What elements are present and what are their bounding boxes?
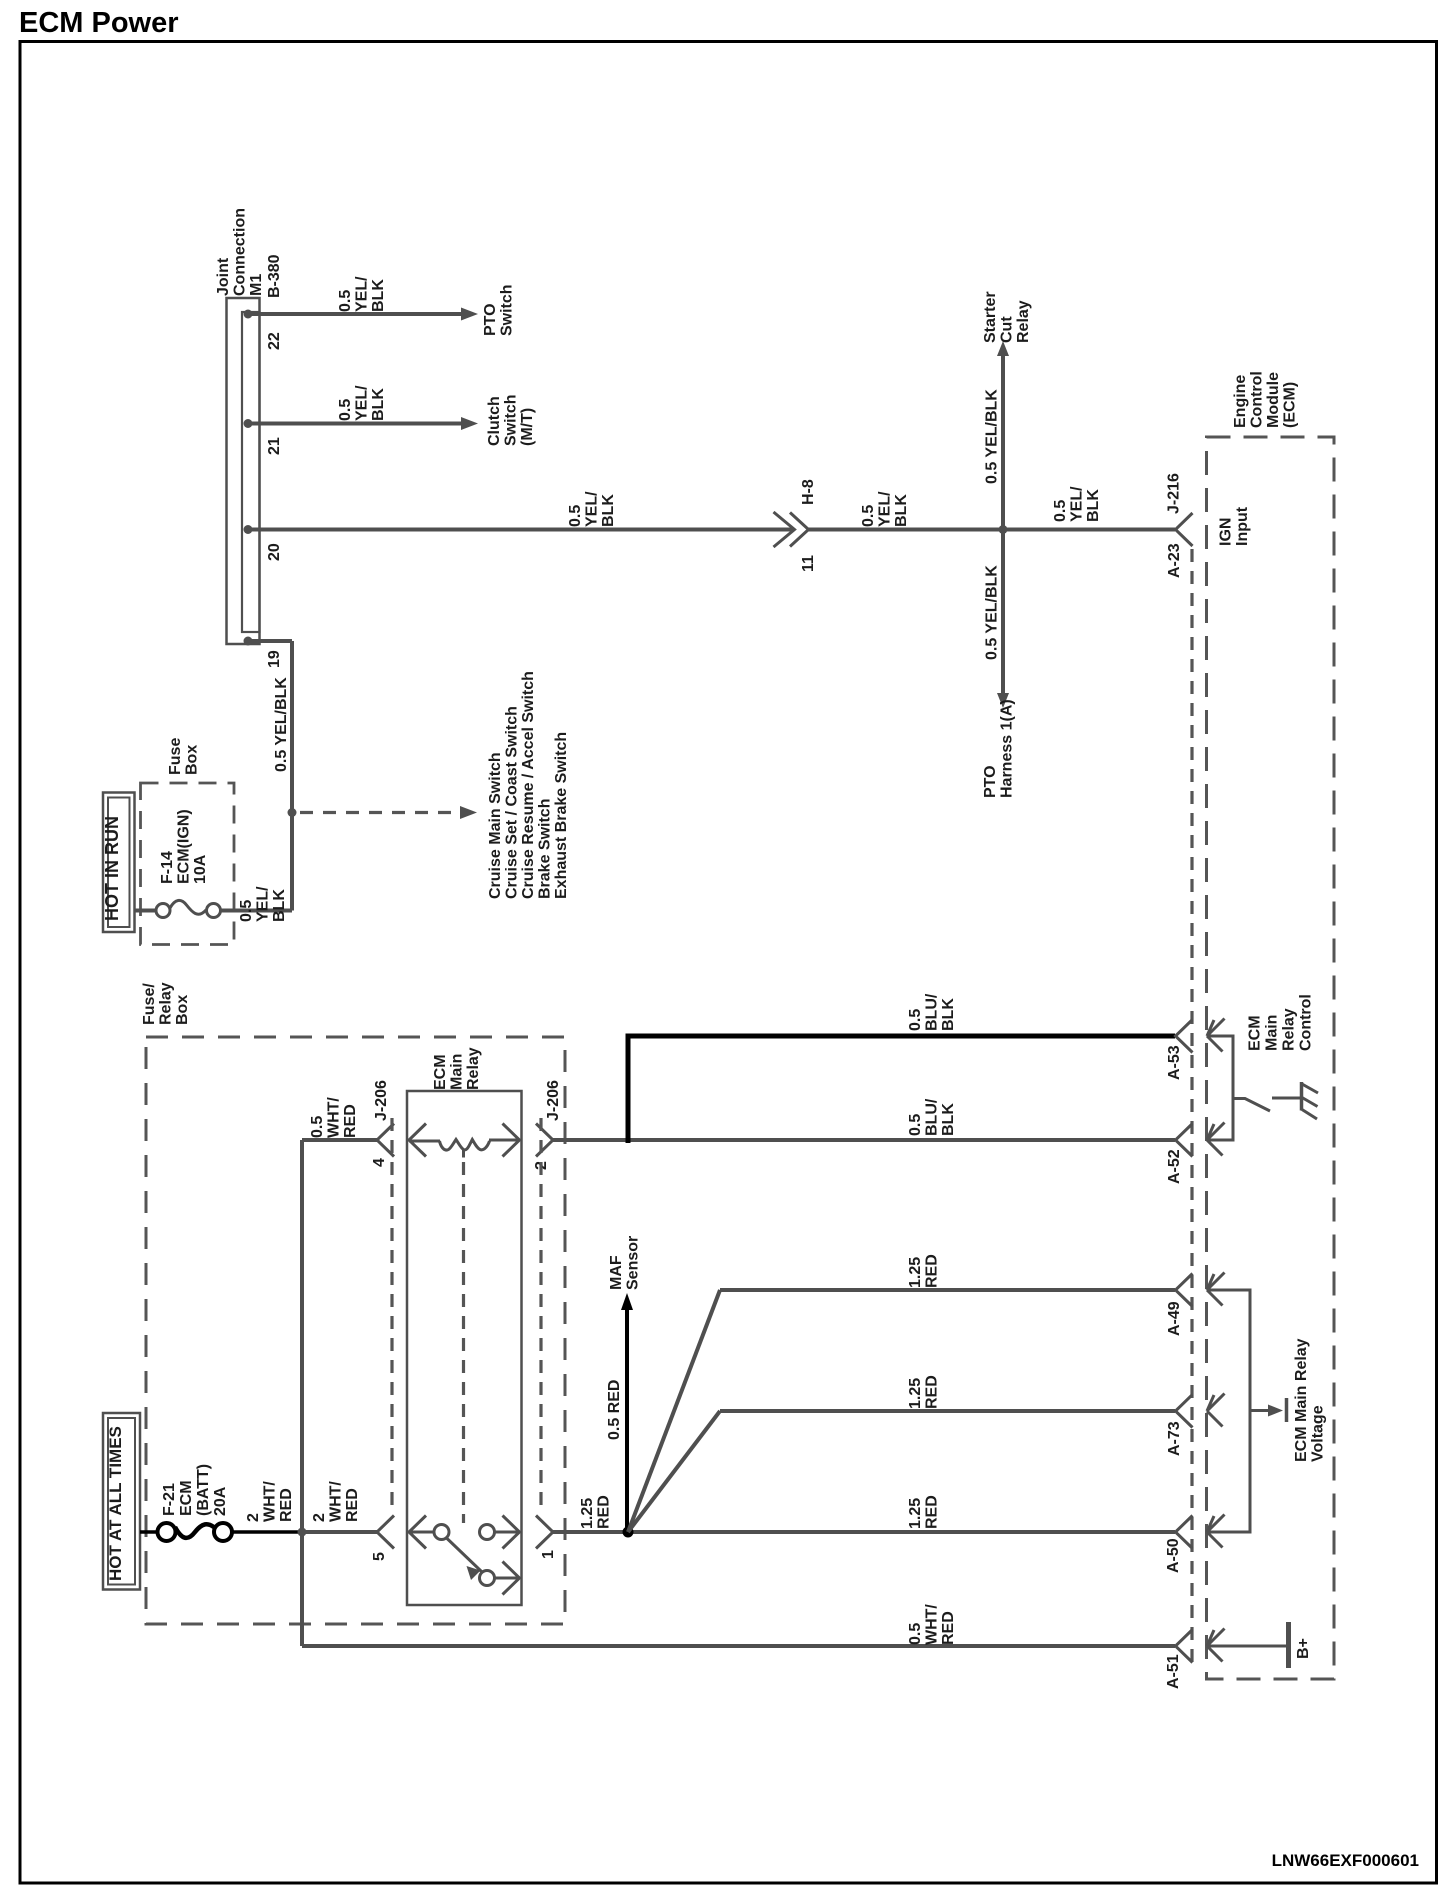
svg-text:A-51: A-51: [1165, 1654, 1182, 1689]
svg-text:Relay: Relay: [158, 982, 175, 1025]
svg-text:2: 2: [311, 1513, 328, 1522]
svg-text:10A: 10A: [192, 854, 209, 884]
svg-text:Relay: Relay: [465, 1047, 482, 1090]
svg-text:(BATT): (BATT): [195, 1464, 212, 1516]
svg-text:HOT IN RUN: HOT IN RUN: [102, 816, 122, 921]
svg-text:19: 19: [266, 650, 283, 668]
svg-text:Engine: Engine: [1232, 375, 1249, 428]
svg-text:J-216: J-216: [1166, 473, 1183, 514]
svg-text:Relay: Relay: [1015, 300, 1032, 343]
svg-text:PTO: PTO: [482, 303, 499, 336]
svg-text:BLK: BLK: [940, 1103, 957, 1136]
svg-text:20A: 20A: [212, 1486, 229, 1516]
svg-text:Relay: Relay: [1281, 1008, 1298, 1051]
svg-text:WHT/: WHT/: [924, 1604, 941, 1645]
svg-text:0.5 YEL/BLK: 0.5 YEL/BLK: [273, 677, 290, 772]
svg-text:Fuse/: Fuse/: [141, 983, 158, 1025]
svg-text:1: 1: [540, 1550, 557, 1559]
svg-text:Voltage: Voltage: [1310, 1405, 1327, 1462]
svg-text:YEL/: YEL/: [354, 276, 371, 312]
svg-text:0.5: 0.5: [907, 1114, 924, 1136]
svg-text:Clutch: Clutch: [486, 396, 503, 446]
svg-text:2: 2: [245, 1513, 262, 1522]
svg-text:BLK: BLK: [600, 494, 617, 527]
svg-text:BLK: BLK: [271, 889, 288, 922]
svg-text:Connection: Connection: [232, 208, 249, 296]
svg-text:IGN: IGN: [1218, 518, 1235, 546]
svg-text:20: 20: [266, 543, 283, 561]
svg-text:PTO: PTO: [982, 765, 999, 798]
svg-text:BLK: BLK: [893, 494, 910, 527]
svg-text:0.5: 0.5: [1052, 500, 1069, 522]
svg-text:YEL/: YEL/: [354, 385, 371, 421]
svg-text:B-380: B-380: [266, 254, 283, 298]
svg-text:Main: Main: [1264, 1015, 1281, 1051]
svg-text:1.25: 1.25: [579, 1498, 596, 1529]
svg-text:MAF: MAF: [608, 1255, 625, 1290]
svg-text:Module: Module: [1265, 372, 1282, 428]
svg-text:Switch: Switch: [499, 284, 516, 336]
svg-text:21: 21: [266, 437, 283, 455]
svg-text:RED: RED: [940, 1611, 957, 1645]
svg-text:BLK: BLK: [1085, 489, 1102, 522]
svg-text:Exhaust Brake Switch: Exhaust Brake Switch: [553, 732, 570, 899]
svg-text:RED: RED: [924, 1254, 941, 1288]
svg-text:BLU/: BLU/: [924, 993, 941, 1031]
svg-text:RED: RED: [924, 1495, 941, 1529]
svg-text:RED: RED: [924, 1375, 941, 1409]
svg-text:RED: RED: [278, 1488, 295, 1522]
svg-text:0.5: 0.5: [567, 505, 584, 527]
svg-text:0.5: 0.5: [907, 1623, 924, 1645]
svg-text:J-206: J-206: [545, 1080, 562, 1121]
svg-text:J-206: J-206: [373, 1080, 390, 1121]
svg-text:1.25: 1.25: [907, 1498, 924, 1529]
svg-text:M1: M1: [248, 274, 265, 296]
svg-text:ECM Power: ECM Power: [19, 7, 179, 39]
svg-text:Joint: Joint: [215, 257, 232, 296]
svg-text:Starter: Starter: [982, 291, 999, 343]
svg-text:Switch: Switch: [503, 394, 520, 446]
svg-text:BLU/: BLU/: [924, 1098, 941, 1136]
svg-text:0.5: 0.5: [309, 1116, 326, 1138]
svg-text:A-73: A-73: [1166, 1421, 1183, 1456]
svg-text:Box: Box: [184, 745, 201, 775]
svg-text:LNW66EXF000601: LNW66EXF000601: [1272, 1851, 1419, 1870]
svg-text:Control: Control: [1249, 371, 1266, 428]
svg-text:0.5: 0.5: [337, 399, 354, 421]
svg-text:HOT AT ALL TIMES: HOT AT ALL TIMES: [106, 1426, 125, 1581]
svg-text:0.5 YEL/BLK: 0.5 YEL/BLK: [984, 565, 1001, 660]
svg-text:0.5: 0.5: [860, 505, 877, 527]
svg-text:ECM: ECM: [432, 1054, 449, 1090]
svg-text:YEL/: YEL/: [255, 886, 272, 922]
svg-text:RED: RED: [342, 1104, 359, 1138]
svg-text:0.5: 0.5: [238, 900, 255, 922]
svg-text:A-49: A-49: [1166, 1301, 1183, 1336]
svg-text:22: 22: [266, 332, 283, 350]
svg-text:Cut: Cut: [999, 316, 1016, 343]
svg-text:YEL/: YEL/: [584, 491, 601, 527]
svg-text:5: 5: [371, 1552, 388, 1561]
svg-text:Cruise Set / Coast Switch: Cruise Set / Coast Switch: [504, 706, 521, 899]
svg-text:1.25: 1.25: [907, 1257, 924, 1288]
svg-text:BLK: BLK: [940, 998, 957, 1031]
svg-text:Sensor: Sensor: [625, 1236, 642, 1290]
svg-text:0.5 YEL/BLK: 0.5 YEL/BLK: [984, 389, 1001, 484]
svg-text:Harness 1(A): Harness 1(A): [999, 699, 1016, 798]
svg-text:WHT/: WHT/: [262, 1481, 279, 1522]
svg-text:YEL/: YEL/: [1069, 486, 1086, 522]
svg-text:WHT/: WHT/: [328, 1481, 345, 1522]
svg-text:A-53: A-53: [1166, 1045, 1183, 1080]
svg-text:Control: Control: [1298, 994, 1315, 1051]
svg-text:A-50: A-50: [1165, 1538, 1182, 1573]
svg-text:F-14: F-14: [159, 851, 176, 884]
svg-text:ECM: ECM: [1247, 1015, 1264, 1051]
svg-text:B+: B+: [1295, 1638, 1312, 1659]
svg-text:WHT/: WHT/: [326, 1097, 343, 1138]
svg-text:Box: Box: [174, 995, 191, 1025]
svg-text:ECM Main Relay: ECM Main Relay: [1293, 1338, 1310, 1462]
svg-text:Input: Input: [1234, 506, 1251, 546]
svg-text:Fuse: Fuse: [167, 738, 184, 775]
svg-text:A-52: A-52: [1166, 1149, 1183, 1184]
svg-text:0.5: 0.5: [907, 1009, 924, 1031]
svg-text:Main: Main: [449, 1054, 466, 1090]
svg-text:0.5: 0.5: [337, 290, 354, 312]
svg-text:Cruise Main Switch: Cruise Main Switch: [487, 752, 504, 899]
svg-text:Cruise Resume / Accel Switch: Cruise Resume / Accel Switch: [520, 671, 537, 899]
svg-text:F-21: F-21: [161, 1483, 178, 1516]
svg-text:ECM(IGN): ECM(IGN): [176, 809, 193, 884]
svg-text:(M/T): (M/T): [519, 408, 536, 446]
svg-text:(ECM): (ECM): [1282, 382, 1299, 428]
svg-text:4: 4: [371, 1158, 388, 1167]
svg-text:Brake Switch: Brake Switch: [537, 799, 554, 899]
svg-text:BLK: BLK: [370, 388, 387, 421]
svg-text:BLK: BLK: [370, 279, 387, 312]
svg-text:H-8: H-8: [800, 479, 817, 505]
svg-text:RED: RED: [596, 1495, 613, 1529]
svg-text:11: 11: [800, 555, 817, 572]
svg-text:A-23: A-23: [1166, 543, 1183, 578]
svg-text:RED: RED: [344, 1488, 361, 1522]
svg-text:ECM: ECM: [178, 1480, 195, 1516]
svg-text:YEL/: YEL/: [877, 491, 894, 527]
svg-text:0.5 RED: 0.5 RED: [606, 1380, 623, 1440]
svg-text:1.25: 1.25: [907, 1378, 924, 1409]
